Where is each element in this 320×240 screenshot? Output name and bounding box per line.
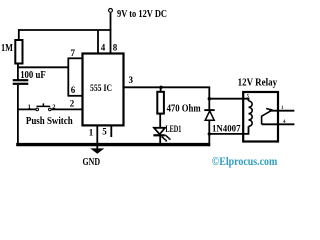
wire top horizontal bbox=[18, 29, 111, 31]
IC U1 555 timer box bbox=[83, 54, 124, 126]
wire relay coil bottom branch bbox=[209, 126, 248, 134]
svg-text:2: 2 bbox=[70, 99, 75, 109]
diode D1 1N4007 triangle bbox=[205, 111, 214, 120]
relay contact line NO bbox=[269, 110, 294, 112]
wire diode to ground bus end bbox=[208, 121, 210, 147]
svg-text:GND: GND bbox=[83, 157, 101, 168]
svg-text:5: 5 bbox=[102, 127, 107, 137]
wire pin3 corner down to diode bbox=[208, 87, 210, 111]
wire supply vertical (pin 8 line) bbox=[110, 13, 112, 54]
wire pins 6-7 vertical link bbox=[67, 58, 69, 96]
LED D2 LED1 triangle bbox=[154, 128, 165, 135]
node relay top branch bbox=[208, 97, 211, 100]
wire pin 5 stub bbox=[110, 125, 112, 137]
LED light arrows bbox=[162, 135, 169, 140]
push button actuator bbox=[37, 103, 51, 106]
svg-text:1: 1 bbox=[89, 128, 94, 138]
wire pin 1 stub to ground bbox=[96, 125, 98, 149]
LED cathode bar bbox=[153, 134, 164, 136]
svg-text:LED1: LED1 bbox=[165, 125, 181, 135]
relay coil L1 bbox=[249, 101, 253, 126]
wire 470 top lead bbox=[160, 87, 162, 92]
resistor R1 1M bbox=[15, 40, 22, 64]
wire 470 to LED bbox=[159, 114, 161, 129]
wire pin 4 stub bbox=[97, 30, 99, 54]
svg-text:Push Switch: Push Switch bbox=[26, 116, 73, 127]
wire LED to ground bus bbox=[159, 136, 161, 145]
svg-text:470 Ohm: 470 Ohm bbox=[167, 104, 201, 115]
wire junction to pins 6-7 bbox=[18, 66, 68, 68]
relay contact line common bbox=[262, 123, 295, 125]
svg-text:1M: 1M bbox=[1, 43, 13, 54]
svg-text:6: 6 bbox=[71, 85, 76, 95]
wire pin 6 stub bbox=[68, 95, 83, 97]
capacitor C1 plate top bbox=[13, 79, 29, 81]
resistor R2 470 Ohm bbox=[157, 92, 164, 114]
svg-text:4: 4 bbox=[101, 42, 106, 52]
capacitor C1 plate bottom bbox=[13, 83, 29, 85]
svg-text:8: 8 bbox=[113, 42, 118, 52]
wire switch to pin 2 bbox=[51, 108, 83, 110]
svg-text:7: 7 bbox=[71, 48, 76, 58]
diode D1 cathode bar bbox=[204, 109, 214, 111]
svg-text:©Elprocus.com: ©Elprocus.com bbox=[212, 156, 278, 168]
node resistor junction bbox=[159, 86, 162, 89]
switch contact right bbox=[49, 108, 52, 111]
wire switch left segment bbox=[18, 108, 36, 110]
ground bus bbox=[16, 143, 210, 146]
wire pin 3 bbox=[124, 86, 211, 88]
supply terminal bbox=[109, 9, 113, 13]
wire 1M bottom lead bbox=[17, 64, 19, 81]
relay switch common post bbox=[261, 116, 263, 125]
wire cap bottom to ground corner bbox=[17, 85, 19, 146]
relay switch armature bbox=[261, 109, 272, 117]
wire pin 7 stub bbox=[68, 57, 83, 59]
svg-text:9V to 12V DC: 9V to 12V DC bbox=[117, 8, 167, 20]
switch contact left bbox=[36, 108, 39, 111]
relay box bbox=[243, 92, 278, 142]
svg-text:3: 3 bbox=[129, 75, 134, 85]
wire relay coil top branch bbox=[209, 99, 248, 101]
svg-text:555 IC: 555 IC bbox=[90, 84, 112, 94]
node pin1-bus junction bbox=[96, 143, 99, 146]
ground symbol arrow bbox=[90, 148, 104, 153]
svg-text:1: 1 bbox=[28, 104, 31, 111]
wire 1M top lead bbox=[18, 29, 20, 40]
node relay bottom branch bbox=[208, 132, 211, 135]
svg-text:12V Relay: 12V Relay bbox=[238, 77, 278, 88]
